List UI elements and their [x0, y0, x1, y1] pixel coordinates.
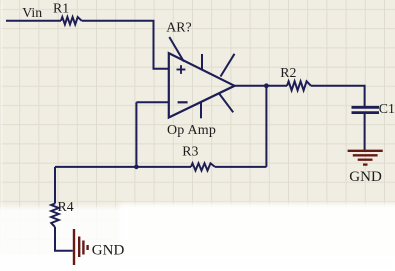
wire R3 to output column — [215, 166, 266, 168]
wire feedback row — [55, 166, 191, 168]
svg-text:R2: R2 — [280, 65, 296, 80]
wire R1 to op-amp plus input — [82, 21, 168, 69]
junction feedback node — [134, 165, 139, 170]
svg-text:GND: GND — [349, 169, 382, 185]
junction output node — [264, 83, 269, 88]
op-amp U1 AR? — [166, 19, 234, 137]
svg-text:Op Amp: Op Amp — [167, 123, 216, 138]
resistor R4 — [51, 199, 74, 227]
wire R4 to ground — [55, 227, 73, 251]
wire Vin input — [6, 20, 61, 22]
svg-text:GND: GND — [92, 243, 125, 259]
wire op-amp output to R2 — [235, 85, 288, 87]
resistor R1 — [53, 0, 82, 24]
op-amp pin stub: top power pin — [201, 54, 203, 70]
ground GND left — [74, 229, 124, 265]
op-amp pin stub: upper-left offset pin — [169, 37, 184, 62]
wire R2 to capacitor — [311, 86, 365, 106]
svg-text:R3: R3 — [182, 143, 198, 158]
wire capacitor to ground — [364, 114, 366, 150]
wire minus input down to feedback node — [135, 102, 137, 167]
svg-text:Vin: Vin — [22, 5, 42, 20]
resistor R2 — [280, 65, 311, 91]
wire minus input — [136, 101, 168, 103]
op-amp pin stub: lower-right offset pin — [219, 93, 233, 112]
resistor R3 — [182, 143, 215, 170]
wire feedback row down to R4 — [54, 167, 56, 204]
op-amp pin stub: bottom power pin — [200, 102, 202, 118]
ground GND right — [348, 151, 383, 185]
node Vin label — [22, 5, 42, 20]
op-amp pin stub: upper-right offset pin — [221, 54, 235, 77]
svg-text:C1: C1 — [379, 101, 395, 116]
wire output node down to feedback row — [265, 86, 267, 167]
capacitor C1 — [352, 101, 395, 116]
svg-text:AR?: AR? — [166, 19, 191, 34]
svg-text:R1: R1 — [53, 0, 69, 15]
svg-text:R4: R4 — [58, 199, 74, 214]
